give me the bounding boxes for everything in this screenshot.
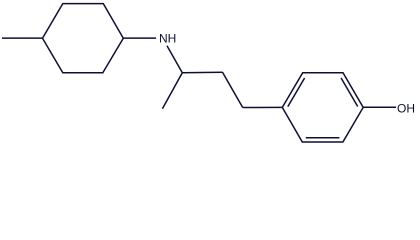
svg-text:OH: OH: [397, 102, 415, 116]
bond CH2-CH2: [223, 72, 243, 107]
svg-text:NH: NH: [159, 32, 176, 46]
bond N-CH: [167, 46, 182, 73]
bond CH-CH3 methyl: [162, 73, 182, 109]
benzene double bond inner line bottom: [306, 137, 340, 139]
bond CH2-benzene: [243, 106, 283, 108]
cyclohexane ring: [43, 4, 124, 73]
bond benzene-O: [363, 106, 396, 108]
bond cyclohexane-N: [123, 37, 156, 39]
benzene ring outer hexagon: [282, 73, 363, 142]
benzene double bond inner line left: [288, 78, 305, 107]
bond CH-CH2: [182, 71, 222, 74]
methyl bond CH3-cyclohexane: [2, 37, 43, 39]
benzene double bond inner line right: [341, 78, 358, 107]
